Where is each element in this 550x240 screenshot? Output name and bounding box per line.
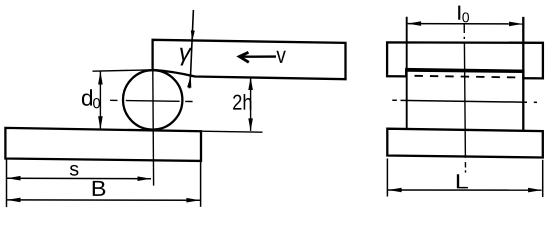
rolled block left edge and l0 extension [406,17,408,129]
d0 arrow down [98,116,103,129]
label v [276,51,285,63]
label gamma [180,48,192,66]
label L [457,174,468,188]
L dimension line [388,189,541,191]
d0 arrow up [98,71,103,84]
label l bar [458,6,460,20]
vertical centerline dash b [464,162,466,168]
label 2h [233,94,251,110]
2h dimension line [250,78,252,131]
top die plate with wedge entry (left figure) [153,40,346,79]
s arrow right [138,176,152,181]
2h arrow up [248,77,253,90]
velocity open arrowhead [239,52,249,62]
hidden edge dashed line [415,76,522,78]
label l subscript 0 [462,12,469,22]
L extension line right [542,160,544,197]
horizontal centerline long dash [401,100,528,102]
right extension line below plate for B [200,161,202,207]
vertical centerline dash a (right figure) [463,24,465,34]
gamma arrow at top face [191,30,195,41]
label B [93,181,106,196]
s arrow left [7,176,21,181]
s dimension line [7,177,151,180]
circle vertical centerline [152,70,155,185]
bottom die plate (right figure) [387,129,543,158]
d0 dimension line [99,72,101,130]
vertical centerline dot a [463,37,465,39]
rolled block right edge and l0 extension [522,17,524,131]
l0 arrow right [509,22,523,27]
circle horizontal centerline dash 3 [185,100,192,102]
horizontal centerline dot b [534,101,537,103]
d0 tangent extension line [93,70,153,71]
B arrow right [186,198,200,203]
workpiece circle d0 [123,70,182,129]
L arrow right [528,188,542,193]
bottom die plate (left figure) [5,128,201,161]
label d [82,89,92,106]
gamma leader curve [189,10,193,88]
2h extension line [201,131,263,132]
vertical centerline dot b [465,170,467,172]
B arrow left [7,198,21,203]
B dimension line [7,199,200,201]
l0 arrow left [408,21,422,26]
vertical centerline long dash [464,43,465,158]
l0 dimension line [408,23,523,25]
top die plate with end tabs (right figure) [387,42,543,78]
label d subscript 0 [93,98,100,108]
circle horizontal centerline dash 2 [126,100,180,103]
L extension line left [386,159,388,197]
label s [70,165,79,176]
L arrow left [388,188,402,193]
horizontal centerline dot a (right figure) [392,99,397,101]
circle horizontal centerline dash 1 [110,99,117,101]
velocity arrow shaft [240,55,277,58]
left extension line below plate [6,159,8,207]
rolled block top edge thick contact line [406,70,523,71]
2h arrow down [248,118,253,131]
gamma arrow at wedge face [187,76,191,88]
